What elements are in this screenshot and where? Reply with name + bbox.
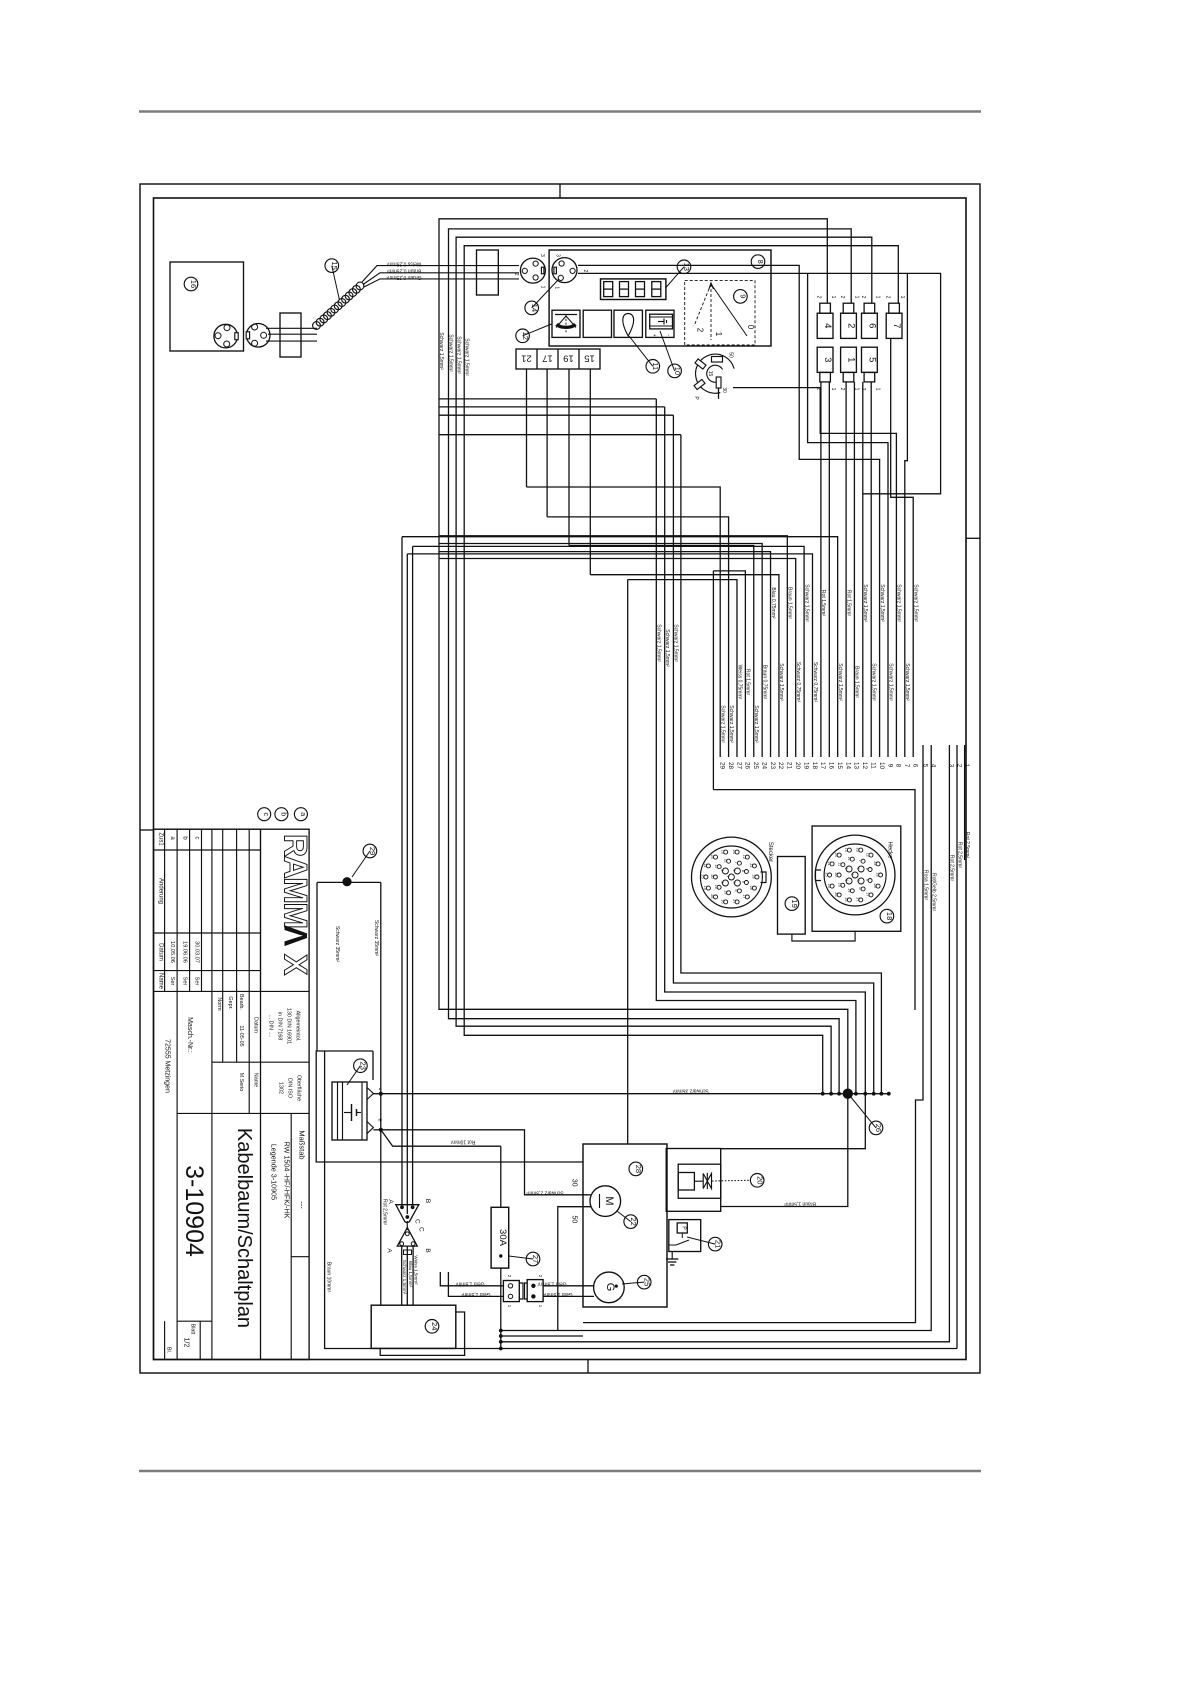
ref circle 22 xyxy=(617,1211,631,1222)
svg-text:14: 14 xyxy=(703,863,707,867)
svg-text:22: 22 xyxy=(749,863,753,867)
svg-text:30.03.07: 30.03.07 xyxy=(194,941,200,963)
svg-text:16: 16 xyxy=(189,280,198,288)
svg-text:8: 8 xyxy=(756,260,765,264)
generator G 25 xyxy=(594,1272,625,1303)
svg-text:29: 29 xyxy=(368,847,377,855)
svg-text:19: 19 xyxy=(802,762,809,770)
fuse 30A xyxy=(491,1207,509,1268)
battery 23 xyxy=(332,1082,367,1140)
svg-text:Schwarz 0,75mm²: Schwarz 0,75mm² xyxy=(795,662,801,703)
svg-text:50: 50 xyxy=(571,1216,578,1224)
svg-text:15: 15 xyxy=(584,353,595,364)
svg-text:Schwarz 35mm²: Schwarz 35mm² xyxy=(672,1088,708,1094)
svg-text:Schwarz 1,5mm²: Schwarz 1,5mm² xyxy=(803,584,809,622)
svg-text:Schwarz 1,5mm²: Schwarz 1,5mm² xyxy=(913,584,919,622)
svg-text:19: 19 xyxy=(723,890,727,894)
fuse blocks xyxy=(817,313,833,338)
svg-text:22: 22 xyxy=(777,762,784,770)
svg-text:130 DIN 16901: 130 DIN 16901 xyxy=(286,1008,292,1044)
svg-text:10: 10 xyxy=(673,367,682,375)
svg-text:30: 30 xyxy=(571,1179,578,1187)
svg-text:Schwarz 1,5mm²: Schwarz 1,5mm² xyxy=(778,663,784,701)
panel connector B xyxy=(552,258,577,283)
svg-text:9: 9 xyxy=(741,881,745,883)
connector triangle lower xyxy=(397,1228,417,1247)
svg-text:3: 3 xyxy=(732,881,736,883)
ref circle 24 xyxy=(425,1320,439,1334)
svg-text:Schwarz 1,5mm²: Schwarz 1,5mm² xyxy=(837,663,843,701)
svg-text:b: b xyxy=(279,812,286,816)
battery minus terminal xyxy=(367,1088,373,1100)
svg-text:15: 15 xyxy=(827,883,831,887)
svg-text:18: 18 xyxy=(875,872,879,876)
svg-text:Schwarz 1,5mm²: Schwarz 1,5mm² xyxy=(896,584,902,622)
svg-text:2: 2 xyxy=(885,296,891,299)
wire row 4 xyxy=(439,434,681,436)
ref circle 9 xyxy=(734,290,748,304)
svg-text:Blau 0,75mm²: Blau 0,75mm² xyxy=(770,587,776,618)
panel connector A xyxy=(520,258,545,283)
braun wire to valve xyxy=(721,1094,848,1207)
svg-text:Braun 0,25mm²: Braun 0,25mm² xyxy=(386,268,421,274)
svg-text:20: 20 xyxy=(710,874,714,878)
frame tick top xyxy=(559,184,561,198)
svg-text:3: 3 xyxy=(554,254,560,257)
svg-text:8: 8 xyxy=(895,764,902,768)
svg-text:14: 14 xyxy=(827,861,831,865)
svg-text:4: 4 xyxy=(822,323,833,328)
junction dot 26 xyxy=(843,1089,853,1099)
svg-text:1: 1 xyxy=(554,286,560,289)
svg-text:9: 9 xyxy=(739,294,748,298)
rect 19 xyxy=(778,857,806,935)
svg-text:24: 24 xyxy=(761,762,768,770)
motor M 22 xyxy=(590,1186,621,1217)
svg-text:Kabelbaum/Schaltplan: Kabelbaum/Schaltplan xyxy=(233,1128,255,1328)
svg-text:Maßstab: Maßstab xyxy=(298,1130,307,1159)
svg-text:15: 15 xyxy=(330,261,339,269)
ref circle 16 xyxy=(184,277,198,291)
svg-text:Braun 0,75mm²: Braun 0,75mm² xyxy=(762,665,768,700)
ref circle 23 xyxy=(347,1066,360,1085)
svg-text:Stecker: Stecker xyxy=(767,842,773,862)
svg-text:G: G xyxy=(604,1283,616,1292)
svg-text:26: 26 xyxy=(874,1124,883,1132)
svg-text:24: 24 xyxy=(710,854,714,858)
svg-text:Änderung: Änderung xyxy=(157,878,164,904)
frame tick left xyxy=(140,829,154,831)
svg-text:Allgemeintol.: Allgemeintol. xyxy=(295,1011,301,1042)
svg-text:M.Serio: M.Serio xyxy=(238,1073,244,1092)
battery module outline xyxy=(316,1051,583,1162)
svg-text:15: 15 xyxy=(703,885,707,889)
triangle feed verticals xyxy=(401,537,403,1205)
bottom rule xyxy=(139,1470,981,1472)
svg-text:19: 19 xyxy=(563,353,574,364)
connector triangle upper xyxy=(396,1205,419,1223)
ref circle 25 xyxy=(622,1282,644,1284)
relay box 24 shadow xyxy=(380,1312,464,1355)
svg-text:Ser: Ser xyxy=(169,977,175,986)
svg-text:c: c xyxy=(194,837,200,840)
svg-text:3-10904: 3-10904 xyxy=(180,1165,208,1257)
svg-text:Schwarz 1,5mm²: Schwarz 1,5mm² xyxy=(656,624,662,662)
svg-text:Schwarz 0,75mm²: Schwarz 0,75mm² xyxy=(812,662,818,703)
ref circle 21 xyxy=(687,1237,715,1244)
Hecke tab xyxy=(816,870,822,881)
svg-text:8: 8 xyxy=(865,868,869,870)
svg-text:Schwarz 1,5mm²: Schwarz 1,5mm² xyxy=(728,705,734,743)
strain relief block xyxy=(280,313,301,357)
ref circle 15 xyxy=(332,266,340,301)
svg-text:12: 12 xyxy=(521,332,530,340)
valve leader xyxy=(712,1179,750,1182)
connector hookup wire xyxy=(792,931,855,941)
cable plug xyxy=(246,324,270,348)
svg-text:30: 30 xyxy=(721,387,727,393)
wire ignition to stair xyxy=(733,388,896,757)
svg-text:... DIN ....: ... DIN .... xyxy=(268,1015,274,1038)
wire fuse7 to pin6 xyxy=(891,339,914,757)
schwarz vertical 1 xyxy=(656,399,856,1094)
svg-text:2: 2 xyxy=(720,869,724,871)
Stecker tab xyxy=(761,872,767,883)
terminal strip 21-17-19-15 xyxy=(516,349,600,369)
svg-text:11: 11 xyxy=(870,762,877,769)
svg-text:2: 2 xyxy=(844,867,848,869)
svg-text:13: 13 xyxy=(844,847,848,851)
svg-text:24: 24 xyxy=(834,852,838,856)
svg-text:B: B xyxy=(424,1199,431,1203)
ref circle 27 xyxy=(509,1256,533,1259)
svg-text:Rot 2,5mm²: Rot 2,5mm² xyxy=(949,855,955,881)
svg-text:6: 6 xyxy=(867,323,878,328)
svg-text:29: 29 xyxy=(719,762,726,770)
round connector Hecke xyxy=(815,835,895,915)
svg-text:Schwarz 1,5mm²: Schwarz 1,5mm² xyxy=(862,584,868,622)
svg-text:Name: Name xyxy=(157,973,163,990)
svg-text:Schwarz 1,5mm²: Schwarz 1,5mm² xyxy=(879,584,885,622)
svg-text:---: --- xyxy=(298,1201,307,1209)
svg-text:21: 21 xyxy=(786,762,793,770)
frame tick bottom xyxy=(587,1360,589,1374)
svg-text:23: 23 xyxy=(359,1062,368,1070)
bundle wires xyxy=(527,487,721,757)
svg-text:1: 1 xyxy=(875,388,881,391)
inner drawing frame xyxy=(154,198,967,1360)
starter box 28 xyxy=(583,1144,667,1307)
svg-text:1: 1 xyxy=(714,332,723,337)
svg-text:Braun 1,5mm²: Braun 1,5mm² xyxy=(784,1200,816,1206)
svg-text:17: 17 xyxy=(542,353,553,364)
svg-text:30A: 30A xyxy=(497,1229,508,1247)
svg-text:Rot 1,5mm²: Rot 1,5mm² xyxy=(745,669,751,695)
ref circle 13 xyxy=(666,267,685,288)
svg-text:18: 18 xyxy=(752,874,756,878)
rot10 wire xyxy=(381,1130,501,1146)
svg-text:11: 11 xyxy=(714,864,718,868)
svg-text:5: 5 xyxy=(720,881,724,883)
svg-text:7: 7 xyxy=(903,764,910,768)
svg-text:25: 25 xyxy=(701,874,705,878)
svg-text:3: 3 xyxy=(856,879,860,881)
svg-text:Rot/Gelb 2,5mm²: Rot/Gelb 2,5mm² xyxy=(931,873,937,911)
svg-text:Braun 1,5mm²: Braun 1,5mm² xyxy=(787,587,793,619)
schwarz vertical 2 xyxy=(665,407,866,1094)
svg-text:2: 2 xyxy=(860,296,866,299)
svg-text:28: 28 xyxy=(873,883,877,887)
svg-text:12: 12 xyxy=(861,762,868,770)
svg-text:10: 10 xyxy=(838,883,842,887)
svg-text:Datum: Datum xyxy=(157,943,163,961)
svg-text:12: 12 xyxy=(866,852,870,856)
svg-text:Schwarz 1,5mm²: Schwarz 1,5mm² xyxy=(887,663,893,701)
svg-text:2: 2 xyxy=(839,388,845,391)
wire panel to stair C xyxy=(808,273,888,757)
svg-text:27: 27 xyxy=(735,762,742,770)
svg-text:Weiss 0,75mm²: Weiss 0,75mm² xyxy=(736,665,742,700)
svg-text:Weiss 1,5mm²: Weiss 1,5mm² xyxy=(414,1255,419,1285)
svg-text:RAMM: RAMM xyxy=(278,834,314,928)
fuse feed wire xyxy=(500,1146,502,1207)
svg-text:7: 7 xyxy=(891,323,902,328)
svg-text:Gelb 1,5mm²: Gelb 1,5mm² xyxy=(461,1291,490,1297)
svg-text:22: 22 xyxy=(629,1217,638,1225)
ref circle 29 xyxy=(352,851,370,877)
svg-text:2: 2 xyxy=(582,270,588,273)
svg-text:20: 20 xyxy=(834,872,838,876)
svg-text:7: 7 xyxy=(734,862,738,864)
svg-text:Gelb 1,5mm²: Gelb 1,5mm² xyxy=(455,1280,484,1286)
svg-text:Rot 2,5mm²: Rot 2,5mm² xyxy=(956,842,962,868)
ref circle 12 xyxy=(523,324,552,336)
svg-text:16: 16 xyxy=(828,762,835,770)
svg-text:Braun 1,5mm²: Braun 1,5mm² xyxy=(854,666,860,698)
svg-text:72555 Metzingen: 72555 Metzingen xyxy=(164,1039,171,1093)
tolerance and scale boxes xyxy=(260,829,262,1359)
svg-text:10: 10 xyxy=(878,762,885,770)
staff table xyxy=(176,991,178,1359)
ignition switch xyxy=(696,354,735,393)
svg-text:Rosa 1,5mm²: Rosa 1,5mm² xyxy=(922,870,928,900)
control panel body xyxy=(549,250,771,346)
svg-text:1: 1 xyxy=(830,388,836,391)
ref circle 28 xyxy=(629,1162,643,1176)
ref circle 18 xyxy=(880,909,894,923)
svg-text:+: + xyxy=(376,1118,385,1123)
battery plus wire xyxy=(373,1129,380,1131)
svg-text:Λ: Λ xyxy=(278,925,314,947)
svg-text:Rot 2,5mm²: Rot 2,5mm² xyxy=(964,832,970,858)
svg-text:23: 23 xyxy=(856,847,860,851)
svg-text:Oberfläche: Oberfläche xyxy=(296,1075,302,1101)
svg-text:Schwarz 35mm²: Schwarz 35mm² xyxy=(334,926,340,962)
svg-text:25: 25 xyxy=(752,762,759,770)
svg-text:27: 27 xyxy=(856,897,860,901)
right side vertical wires xyxy=(583,756,923,1323)
gelb wires xyxy=(440,1272,503,1286)
ref circle 14 xyxy=(532,279,559,308)
cable bushing xyxy=(477,250,499,295)
svg-text:11-05-05: 11-05-05 xyxy=(238,1025,244,1046)
svg-text:20: 20 xyxy=(794,762,801,770)
svg-text:Datum: Datum xyxy=(253,1017,259,1033)
svg-text:15: 15 xyxy=(707,371,713,377)
schwarz vertical 4 xyxy=(681,435,882,1094)
svg-text:Schwarz 1,5mm²: Schwarz 1,5mm² xyxy=(753,705,759,743)
triangle to relay wires xyxy=(401,1246,403,1305)
svg-text:5: 5 xyxy=(867,357,878,362)
svg-text:Schwarz 35mm²: Schwarz 35mm² xyxy=(373,920,379,956)
svg-text:RW 1504 -HF/-HFK/-HK: RW 1504 -HF/-HFK/-HK xyxy=(283,1142,292,1219)
stair vertical x713 xyxy=(712,571,714,790)
svg-text:28: 28 xyxy=(727,762,734,770)
stair vertical x627 xyxy=(627,580,629,1145)
svg-text:25: 25 xyxy=(642,1278,651,1286)
battery plus terminal xyxy=(367,1122,373,1134)
braun10 vertical xyxy=(325,1051,501,1349)
svg-text:0: 0 xyxy=(746,325,755,330)
svg-text:Braun 10mm²: Braun 10mm² xyxy=(326,1262,332,1293)
svg-text:Ser: Ser xyxy=(194,977,200,986)
svg-text:Zus1: Zus1 xyxy=(157,832,163,846)
ref circle 20 xyxy=(750,1174,764,1188)
junction dot 29 xyxy=(342,877,351,886)
svg-text:A: A xyxy=(385,1248,392,1253)
outer drawing frame xyxy=(140,184,980,1373)
svg-text:Bearb.: Bearb. xyxy=(238,994,244,1010)
coiled cable xyxy=(313,322,321,330)
svg-text:Masch.-Nr.:: Masch.-Nr.: xyxy=(186,1017,193,1053)
svg-text:DIN ISO: DIN ISO xyxy=(287,1078,293,1098)
svg-text:18: 18 xyxy=(885,912,894,920)
svg-text:19.06.06: 19.06.06 xyxy=(181,941,187,963)
svg-text:16: 16 xyxy=(844,897,848,901)
svg-text:21: 21 xyxy=(521,353,532,364)
svg-text:9: 9 xyxy=(886,764,893,768)
svg-text:Norm: Norm xyxy=(216,997,222,1011)
svg-text:1: 1 xyxy=(899,296,905,299)
ground strap wire xyxy=(317,881,381,883)
svg-text:1/2: 1/2 xyxy=(183,1338,190,1348)
wire to connector area xyxy=(713,790,915,1010)
wire to pin7 xyxy=(905,273,908,757)
pressure switch 21 xyxy=(669,1220,701,1252)
wire panel to stair B xyxy=(578,273,941,493)
svg-text:Name: Name xyxy=(253,1073,259,1087)
title block grid xyxy=(154,829,310,1359)
svg-text:5: 5 xyxy=(844,879,848,881)
svg-text:9: 9 xyxy=(865,879,869,881)
svg-text:B: B xyxy=(424,1248,431,1252)
svg-text:Blau 1,5mm²: Blau 1,5mm² xyxy=(408,1261,413,1288)
relay box 24 xyxy=(371,1305,456,1348)
svg-text:21: 21 xyxy=(723,859,727,863)
svg-text:13: 13 xyxy=(853,762,860,770)
strap drop right xyxy=(380,882,382,1305)
svg-text:3: 3 xyxy=(822,357,833,362)
gelb connector pair xyxy=(503,1281,519,1302)
svg-text:2: 2 xyxy=(839,296,845,299)
round connector Stecker xyxy=(692,837,772,917)
svg-text:22: 22 xyxy=(873,861,877,865)
svg-text:+: + xyxy=(651,334,657,337)
svg-text:Gruen 0,25mm²: Gruen 0,25mm² xyxy=(386,274,421,280)
svg-text:in DIN 7168: in DIN 7168 xyxy=(277,1012,283,1040)
svg-text:4: 4 xyxy=(732,869,736,871)
svg-text:17: 17 xyxy=(866,892,870,896)
svg-text:1: 1 xyxy=(846,357,857,362)
svg-text:25: 25 xyxy=(824,872,828,876)
svg-text:Gelb 1,5mm²: Gelb 1,5mm² xyxy=(537,1280,566,1286)
svg-text:14: 14 xyxy=(844,762,851,770)
svg-text:Schwarz 2,5mm²: Schwarz 2,5mm² xyxy=(526,1190,564,1196)
svg-text:6: 6 xyxy=(734,889,738,891)
svg-text:6: 6 xyxy=(858,887,862,889)
junction dots xyxy=(821,1092,825,1096)
svg-text:26: 26 xyxy=(744,762,751,770)
svg-text:Schwarz 1,5mm²: Schwarz 1,5mm² xyxy=(871,663,877,701)
svg-text:Schwarz 1,5mm²: Schwarz 1,5mm² xyxy=(664,629,670,667)
svg-text:6: 6 xyxy=(912,764,919,768)
svg-text:21: 21 xyxy=(713,1240,722,1248)
svg-text:Rot 10mm²: Rot 10mm² xyxy=(450,1139,475,1145)
svg-text:Rot 2,5mm²: Rot 2,5mm² xyxy=(382,1199,388,1225)
bottom bus wires xyxy=(499,1329,503,1333)
frame tick right xyxy=(966,537,980,539)
seven segment display 13 xyxy=(601,279,666,300)
wire row 3 xyxy=(439,414,673,416)
svg-text:2: 2 xyxy=(696,328,705,333)
svg-text:28: 28 xyxy=(749,885,753,889)
wire row 2 xyxy=(439,406,665,408)
ignition position diagram xyxy=(685,281,755,345)
svg-text:-: - xyxy=(376,1088,385,1091)
svg-text:7: 7 xyxy=(858,860,862,862)
svg-text:8: 8 xyxy=(741,870,745,872)
svg-text:16: 16 xyxy=(720,899,724,903)
fuse out wire xyxy=(500,1268,502,1348)
svg-text:11: 11 xyxy=(838,862,842,866)
minus junction dot xyxy=(379,1092,383,1096)
RAMMAX logo xyxy=(278,834,314,976)
svg-text:c: c xyxy=(262,812,269,816)
svg-text:Rot 1,5mm²: Rot 1,5mm² xyxy=(820,590,826,616)
svg-text:X: X xyxy=(278,954,314,976)
svg-text:Hecke: Hecke xyxy=(886,841,892,859)
left riser wires to junction line xyxy=(439,247,848,1094)
svg-text:1: 1 xyxy=(726,875,730,877)
panel socket on box 16 xyxy=(214,324,238,348)
svg-text:C: C xyxy=(418,1227,425,1232)
svg-text:15: 15 xyxy=(836,762,843,770)
svg-text:Rot 1,5mm²: Rot 1,5mm² xyxy=(845,590,851,616)
schwarz vertical 3 xyxy=(673,415,873,1093)
svg-text:Gepr.: Gepr. xyxy=(227,996,233,1009)
svg-text:2: 2 xyxy=(846,323,857,328)
ref circle 11 xyxy=(629,336,653,366)
svg-text:23: 23 xyxy=(732,849,736,853)
wire panel to stair A xyxy=(578,265,880,757)
svg-text:M: M xyxy=(603,1196,615,1205)
ground symbol xyxy=(671,1252,673,1260)
svg-text:Ser: Ser xyxy=(181,977,187,986)
ignition stub 15 xyxy=(718,388,720,399)
ref circle 10 xyxy=(660,331,675,371)
control box 16 xyxy=(170,262,244,351)
wire row 1 xyxy=(439,398,656,400)
